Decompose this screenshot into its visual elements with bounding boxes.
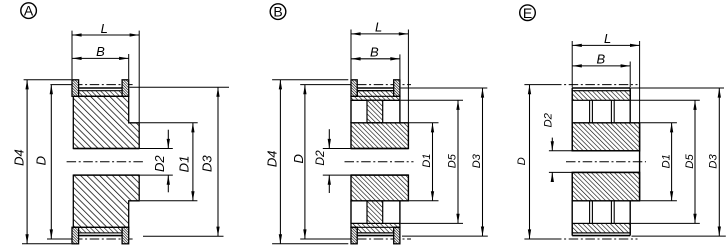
dimension D (E) (529, 85, 531, 239)
svg-text:D4: D4 (11, 149, 26, 166)
view label B (270, 4, 286, 20)
dimension D2 (E) (551, 138, 553, 151)
pulley E upper recess edge lines (589, 100, 591, 123)
dimension B (A) (128, 54, 130, 79)
dimension D (A) (50, 85, 52, 239)
pulley A bore top line (73, 148, 139, 150)
dimension L (B) (350, 30, 352, 80)
dimension D (B) (304, 85, 306, 239)
svg-text:D3: D3 (471, 153, 483, 168)
dimension D1 (A) (140, 122, 198, 124)
svg-text:D3: D3 (708, 154, 720, 169)
pulley B root line top (351, 95, 400, 97)
pulley A bore bottom line (73, 174, 139, 176)
pulley E lower recess edge lines (589, 201, 591, 224)
pulley B pitch centerline top (300, 84, 352, 86)
dimension L (A) (71, 31, 73, 80)
dimension D2 (A) (167, 130, 169, 149)
pulley E upper rim section (572, 91, 630, 101)
pulley B bore axis centerline (345, 161, 414, 163)
pulley E bore top line (572, 150, 639, 152)
pulley A flange top-left (72, 80, 79, 97)
pulley A flange top-right (122, 80, 129, 97)
pulley E lower rim section (572, 223, 630, 233)
svg-text:B: B (96, 44, 105, 59)
svg-text:D1: D1 (421, 154, 433, 168)
svg-text:B: B (273, 4, 282, 20)
dimension D2 (B) (328, 129, 330, 148)
pulley E pitch centerline top (524, 84, 552, 86)
pulley B teeth OD line top (357, 87, 394, 89)
svg-text:D1: D1 (661, 154, 673, 168)
pulley E bore bottom line (572, 171, 639, 173)
svg-text:B: B (596, 52, 605, 67)
pulley A flange bottom-left (72, 227, 79, 244)
pulley A root line bottom (73, 226, 128, 228)
pulley E teeth OD line bottom (572, 235, 630, 237)
pulley A upper body section (73, 96, 139, 148)
svg-text:D: D (291, 154, 306, 163)
pulley B right teeth face edge (399, 100, 401, 123)
pulley B flange top-left (351, 80, 357, 97)
pulley B bore top line (351, 148, 408, 150)
dimension L (E) (571, 41, 573, 88)
svg-text:D: D (516, 157, 528, 165)
pulley B lower hub section (351, 175, 408, 201)
pulley A flange bottom-right (122, 227, 129, 244)
pulley B bore bottom line (351, 174, 408, 176)
pulley E upper hub section (572, 123, 639, 151)
pulley B lower web section (367, 201, 383, 224)
pulley B pitch centerline bottom (300, 238, 352, 240)
pulley B root line bottom (351, 226, 400, 228)
dimension D4 (A) (24, 79, 72, 81)
svg-text:D3: D3 (200, 155, 215, 172)
dimension D5 (E) (631, 99, 700, 101)
dimension B (E) (629, 62, 631, 88)
pulley B flange bottom-right (394, 227, 400, 244)
pulley E lower hub section (572, 172, 639, 200)
svg-text:D1: D1 (176, 156, 191, 173)
pulley B upper hub section (351, 123, 408, 149)
pulley A lower body section (73, 175, 139, 227)
pulley B flange bottom-left (351, 227, 357, 244)
svg-text:L: L (101, 21, 108, 36)
svg-text:D2: D2 (313, 150, 327, 166)
pulley A lower rim band (73, 227, 128, 233)
dimension D3 (A) (129, 86, 229, 88)
svg-text:A: A (24, 3, 34, 19)
pulley B flange top-right (394, 80, 400, 97)
svg-text:D4: D4 (264, 150, 279, 167)
dimension D1 (E) (640, 122, 677, 124)
dimension B (B) (399, 54, 401, 79)
svg-text:D: D (33, 156, 48, 165)
pulley B left face edge (350, 100, 352, 123)
pulley E left face edge (571, 88, 573, 151)
dimension D5 (B) (401, 99, 463, 101)
pulley B teeth OD line bottom (357, 235, 394, 237)
view label E (520, 5, 536, 21)
pulley E teeth OD line top (572, 87, 630, 89)
pulley A root line top (73, 95, 128, 97)
pulley A upper rim band (73, 91, 128, 97)
svg-text:E: E (523, 5, 532, 21)
dimension D4 (B) (272, 79, 348, 81)
svg-text:D2: D2 (152, 155, 167, 172)
svg-text:D5: D5 (684, 154, 696, 169)
pulley B lower rim section (351, 223, 400, 233)
pulley B upper web section (367, 100, 383, 123)
pulley A bore axis centerline (67, 161, 146, 163)
pulley A pitch centerline bottom (47, 238, 73, 240)
view label A (21, 3, 37, 19)
svg-text:D5: D5 (446, 153, 458, 168)
pulley A pitch centerline top (50, 84, 73, 86)
svg-text:B: B (370, 45, 379, 60)
pulley E pitch centerline bottom (524, 238, 552, 240)
svg-text:D2: D2 (543, 112, 555, 127)
pulley E right teeth edge (629, 88, 631, 123)
pulley A teeth OD line top (79, 87, 123, 89)
svg-text:L: L (604, 31, 611, 46)
dimension D1 (B) (409, 122, 438, 124)
svg-text:L: L (375, 20, 382, 35)
pulley E hub right edge (639, 123, 641, 201)
pulley B upper rim section (351, 91, 400, 101)
pulley E bore axis centerline (566, 161, 646, 163)
pulley A teeth OD line bottom (79, 235, 123, 237)
dimension D3 (B) (401, 87, 488, 89)
dimension D3 (E) (631, 87, 724, 89)
